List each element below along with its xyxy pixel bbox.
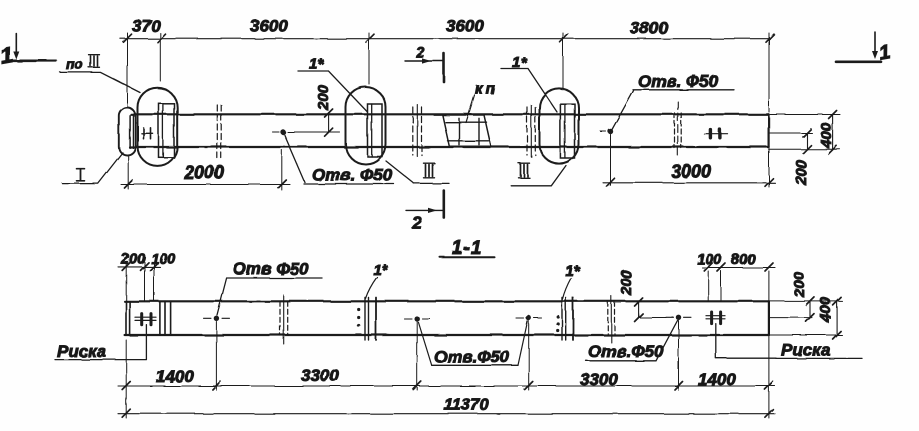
svg-text:3300: 3300 (580, 370, 618, 389)
gusset plate parallelogram (442, 115, 491, 146)
dim 400 right top view (832, 115, 834, 150)
tick 370 (366, 34, 374, 42)
label I leader (63, 153, 123, 184)
svg-text:1400: 1400 (698, 370, 736, 389)
tick 127 (124, 34, 132, 42)
extension line x128 lower (127, 156, 129, 189)
svg-text:3300: 3300 (301, 366, 339, 385)
section mark 1 right (836, 32, 892, 65)
svg-text:11370: 11370 (444, 396, 489, 414)
hole B1 (214, 316, 219, 321)
leader hole T1 (285, 135, 395, 184)
svg-text:200: 200 (120, 252, 145, 268)
corbel balloon K1 (138, 88, 178, 166)
svg-text:2: 2 (415, 44, 425, 61)
svg-text:370: 370 (132, 17, 161, 36)
svg-text:Отв.Ф50: Отв.Ф50 (588, 342, 664, 361)
splice group BR (607, 301, 609, 335)
svg-text:3800: 3800 (630, 19, 668, 38)
extension line x161 (159, 33, 161, 81)
beam right end edge (767, 114, 769, 147)
stiffener triple lines left (160, 301, 171, 335)
splice group BL (279, 301, 281, 335)
label I (77, 169, 85, 181)
corbel plate P2 (368, 104, 383, 157)
svg-text:800: 800 (731, 252, 755, 268)
svg-text:2: 2 (411, 213, 422, 232)
svg-text:3600: 3600 (250, 17, 288, 36)
plate lines group B (556, 315, 559, 318)
extension beam right down (768, 271, 770, 418)
plate lines group A (357, 308, 360, 311)
svg-text:200: 200 (315, 84, 332, 111)
dim 200 right bottom view (809, 301, 811, 318)
riska mark left (135, 317, 156, 320)
svg-text:Отв. Ф50: Отв. Ф50 (312, 166, 393, 185)
beam end cap lines (130, 115, 133, 148)
extension hole T2 down (610, 135, 612, 187)
beam section left edges (126, 301, 130, 335)
splice dashes G4 (674, 113, 676, 148)
extension for 2000 right (281, 150, 283, 190)
tick 161 (158, 34, 166, 42)
svg-text:1*: 1* (565, 263, 580, 280)
svg-text:200: 200 (793, 159, 810, 186)
tick 770 (766, 34, 774, 42)
corbel plate P3 (560, 104, 574, 158)
corbel plate P1 (159, 103, 175, 157)
extension hole B1 down (215, 322, 217, 391)
label III second (511, 163, 566, 186)
svg-text:3000: 3000 (671, 162, 711, 182)
dim 400 right bottom view (836, 301, 838, 335)
tick 564 (560, 34, 568, 42)
label po III (60, 55, 140, 93)
svg-text:3600: 3600 (446, 17, 484, 36)
beam section right edge (768, 301, 770, 335)
dim 200 right top view (806, 133, 808, 149)
extension line x128 upper (127, 33, 129, 106)
svg-text:Риска: Риска (781, 341, 830, 360)
riska leader right (716, 324, 776, 359)
dim 2000 (121, 184, 290, 186)
dim 3000 (603, 182, 775, 184)
svg-text:1400: 1400 (156, 367, 194, 386)
bolt pair top view (704, 133, 728, 135)
svg-text:1*: 1* (309, 56, 324, 73)
beam bottom edge (130, 146, 769, 148)
svg-text:Риска: Риска (57, 342, 106, 361)
leader hole T2 (612, 90, 734, 130)
section mark 2 top (405, 44, 444, 82)
hole T2 (608, 129, 613, 134)
extension beam left down (125, 340, 127, 418)
svg-text:2000: 2000 (183, 163, 224, 183)
extension line x370 (368, 33, 370, 84)
svg-text:Отв. Ф50: Отв. Ф50 (638, 72, 719, 91)
svg-text:кп: кп (475, 81, 498, 98)
gusset grid (446, 122, 489, 141)
chain dim line bottom (118, 385, 775, 387)
riska leader left (55, 325, 146, 360)
svg-text:400: 400 (817, 296, 834, 323)
splice dashes G2 (412, 107, 414, 155)
hole B4 (676, 315, 681, 320)
svg-text:Отв Ф50: Отв Ф50 (233, 260, 309, 279)
extension line x769 (768, 33, 770, 112)
svg-text:1-1: 1-1 (452, 238, 482, 259)
top dimension line (120, 38, 770, 40)
right refs top view (770, 114, 840, 116)
svg-text:1: 1 (0, 41, 15, 69)
splice dashes G3 (526, 107, 528, 155)
dim 200 vertical at hole T1 (328, 113, 330, 133)
svg-text:200: 200 (618, 269, 635, 296)
section mark 2 bottom (406, 191, 444, 233)
hole B2 (415, 316, 420, 321)
splice dashes G1 (216, 105, 218, 158)
extension line x564 (562, 33, 564, 89)
section mark 1 left (0, 33, 56, 69)
corbel balloon K3 (540, 88, 579, 163)
svg-text:Отв.Ф50: Отв.Ф50 (434, 348, 510, 367)
svg-text:200: 200 (791, 271, 808, 298)
riska mark right (706, 316, 725, 319)
svg-text:по: по (66, 56, 84, 72)
beam section bottom edge (125, 334, 769, 336)
beam section top edge (125, 300, 769, 302)
end detail I stadium (119, 108, 136, 156)
weld mark H left (144, 128, 151, 139)
hole B3 (526, 315, 531, 320)
label III first (386, 161, 449, 183)
beam top edge (131, 113, 769, 115)
hole T1 (280, 129, 285, 134)
dim 11370 (118, 413, 775, 415)
svg-text:1: 1 (877, 41, 892, 65)
svg-text:400: 400 (818, 122, 835, 149)
right refs bottom view (769, 300, 842, 302)
corbel balloon K2 (346, 87, 386, 164)
svg-text:1*: 1* (373, 262, 388, 279)
